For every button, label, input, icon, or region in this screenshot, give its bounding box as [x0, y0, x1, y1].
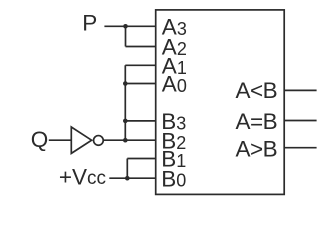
svg-text:A>B: A>B: [236, 137, 278, 162]
junction dot B3: [123, 119, 128, 124]
wire Vcc to B0: [109, 177, 155, 179]
inverter U2 bubble: [94, 136, 104, 146]
wire output A=B: [284, 120, 316, 122]
svg-text:Q: Q: [31, 127, 49, 152]
svg-text:A=B: A=B: [236, 109, 278, 134]
wire A0 stub: [125, 83, 155, 85]
comparator U1: [156, 10, 285, 195]
wire A2 stub: [126, 46, 156, 48]
wire Q to inverter: [49, 139, 72, 141]
svg-text:+Vcc: +Vcc: [59, 165, 106, 190]
wire inverter output to B2: [104, 139, 156, 141]
wire P to A3: [104, 25, 155, 27]
junction dot node P/A3: [123, 24, 128, 29]
wire B3 stub: [125, 120, 155, 122]
svg-text:B0: B0: [161, 166, 186, 191]
svg-text:P: P: [82, 10, 97, 35]
svg-text:A0: A0: [162, 72, 187, 97]
wire A1 stub: [125, 64, 155, 66]
svg-text:A<B: A<B: [236, 78, 278, 103]
wire output A&gt;B: [284, 147, 316, 149]
wire B1-B0 bracket vertical: [126, 159, 128, 179]
junction dot A0: [123, 81, 128, 86]
inverter U2 triangle: [71, 127, 91, 153]
wire output A&lt;B: [284, 89, 316, 91]
wire net vertical A1-B2: [124, 65, 126, 140]
wire A2 branch vertical: [125, 26, 127, 46]
junction dot B0: [125, 176, 130, 181]
wire B1 stub: [127, 158, 155, 160]
junction dot B2: [123, 138, 128, 143]
